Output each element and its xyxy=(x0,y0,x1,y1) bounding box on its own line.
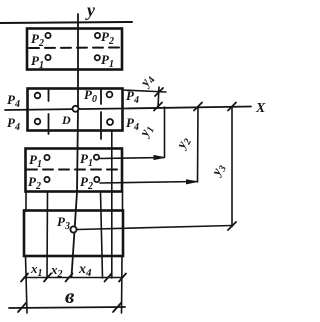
svg-text:в: в xyxy=(65,284,75,308)
svg-text:D: D xyxy=(61,113,71,127)
svg-text:X: X xyxy=(255,101,266,116)
svg-text:у: у xyxy=(85,0,96,20)
